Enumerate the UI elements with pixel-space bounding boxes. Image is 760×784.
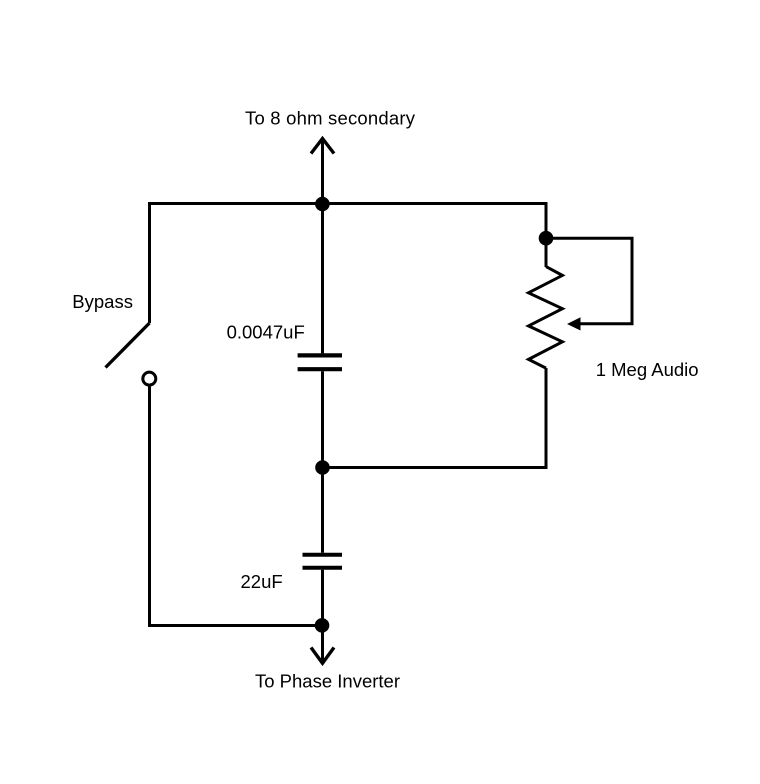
svg-text:To 8 ohm secondary: To 8 ohm secondary <box>245 107 416 128</box>
svg-text:1 Meg Audio: 1 Meg Audio <box>596 359 699 380</box>
wire: pot wiper loop <box>546 238 632 324</box>
wire: left vertical down to switch <box>148 202 151 323</box>
capacitor C1 0.0047uF top plate <box>298 353 342 357</box>
capacitor C2 22uF bottom plate <box>303 566 343 570</box>
potentiometer R1 wiper arrowhead <box>567 317 581 330</box>
switch SW1 blade (Bypass, open) <box>106 323 150 368</box>
wire: C2 bottom to output node <box>321 570 324 626</box>
node: middle junction (C1 / pot bottom / C2) <box>315 460 330 475</box>
node: bottom output junction <box>315 618 330 633</box>
wire: right vertical from top bus to pot top <box>545 202 548 267</box>
svg-text:0.0047uF: 0.0047uF <box>227 322 305 343</box>
wire: bottom horizontal to output node <box>148 624 323 627</box>
capacitor C1 0.0047uF bottom plate <box>298 367 342 371</box>
switch SW1 contact circle <box>143 372 156 385</box>
terminal arrow to 8 ohm secondary <box>311 139 334 204</box>
svg-text:To Phase Inverter: To Phase Inverter <box>255 670 400 691</box>
wire: left vertical below switch <box>148 387 151 628</box>
wire: middle node down to C2 <box>321 468 324 553</box>
node: pot top junction <box>539 231 554 246</box>
wire: main vertical from top node to C1 <box>321 204 324 354</box>
node: junction top of coupling cap <box>315 197 330 212</box>
wire: pot bottom to middle node <box>323 368 547 468</box>
capacitor C2 22uF top plate <box>303 553 343 557</box>
svg-text:Bypass: Bypass <box>72 291 133 312</box>
svg-text:22uF: 22uF <box>241 571 283 592</box>
wire: C1 bottom to middle node <box>321 371 324 467</box>
terminal arrow to phase inverter <box>311 626 334 664</box>
potentiometer R1 1 Meg Audio resistor body <box>529 267 563 369</box>
wire: top horizontal bus <box>148 202 548 205</box>
